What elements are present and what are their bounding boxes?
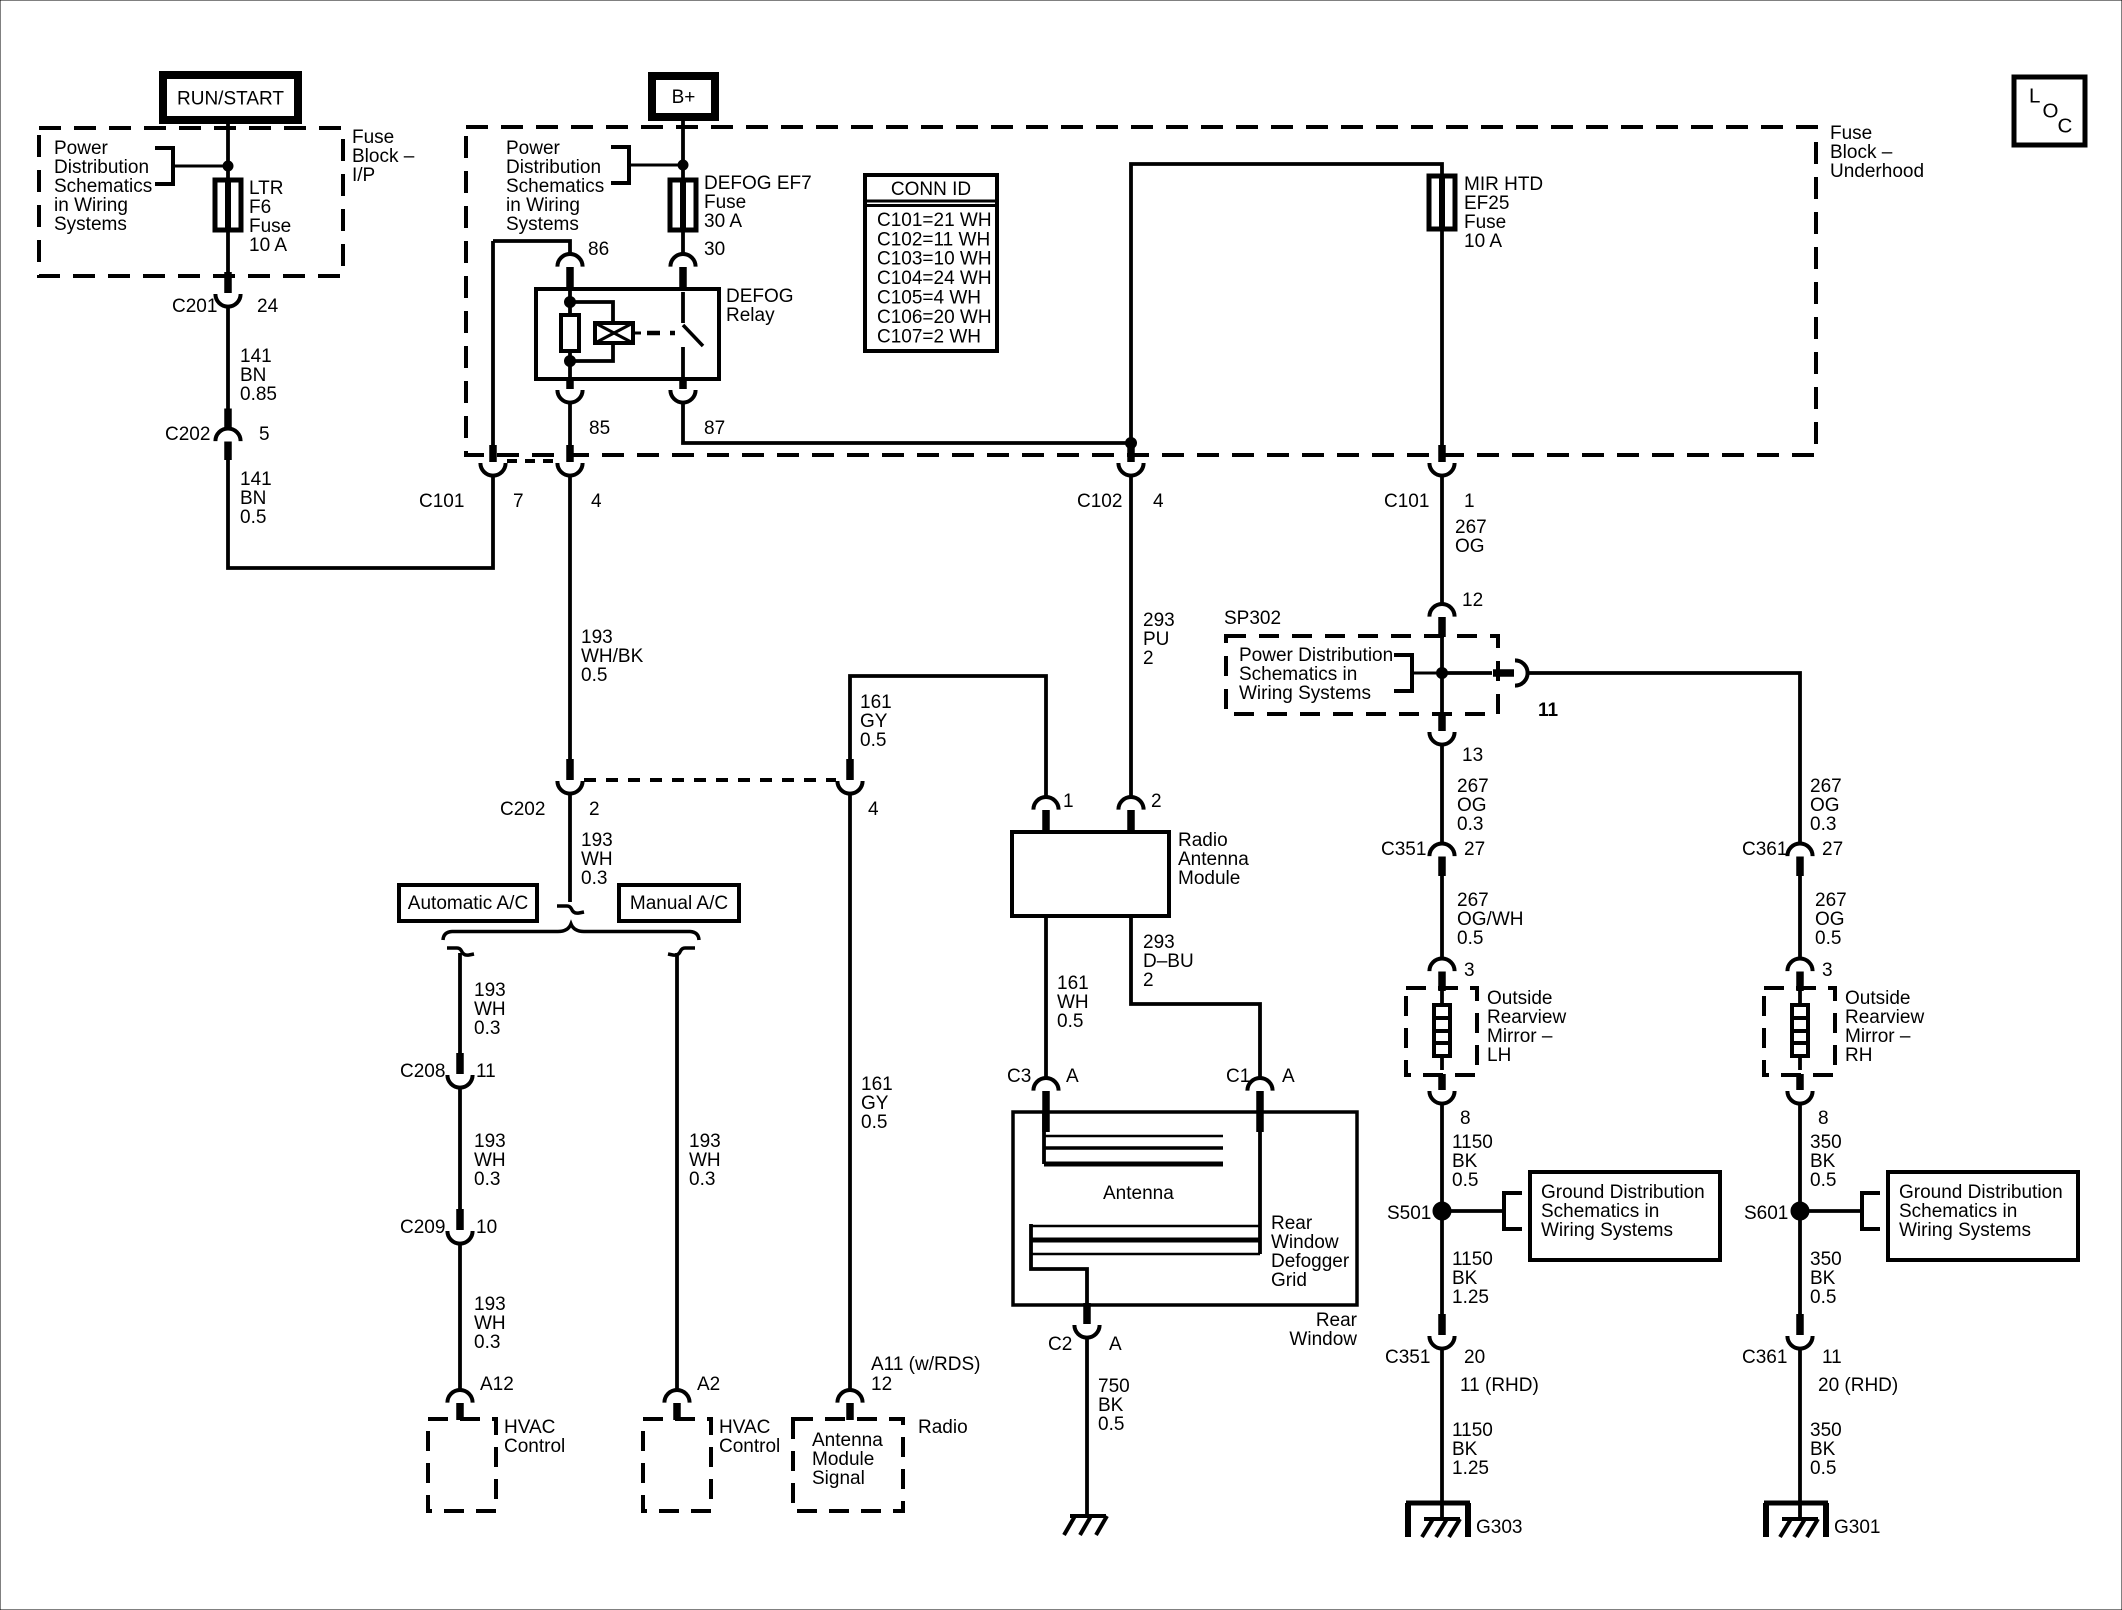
connector C361 terminal 27	[1787, 843, 1812, 876]
svg-text:267: 267	[1457, 776, 1489, 797]
svg-text:193: 193	[581, 627, 613, 648]
svg-text:Module: Module	[1178, 868, 1240, 889]
svg-text:Fuse: Fuse	[1464, 212, 1506, 233]
table CONN ID	[865, 175, 997, 351]
connector terminal 12 (radio)	[837, 1390, 862, 1420]
wire 267 OG/WH 0.5	[1440, 874, 1444, 959]
label 2 (C202)	[589, 799, 600, 820]
splice brace	[443, 924, 699, 940]
wire resistor bottom	[568, 351, 572, 379]
note Ground Distribution Schematics (S501)	[1541, 1182, 1705, 1241]
svg-text:193: 193	[689, 1131, 721, 1152]
label C351 (27)	[1381, 839, 1426, 860]
label A11 (w/RDS) 12	[871, 1354, 980, 1395]
label S501	[1387, 1203, 1431, 1224]
wire into RH heater	[1798, 988, 1802, 1005]
dashed box Outside Rearview Mirror RH	[1764, 988, 1835, 1075]
svg-text:Systems: Systems	[506, 214, 579, 235]
wire 350 BK 0.5 (upper)	[1798, 1102, 1802, 1316]
svg-text:HVAC: HVAC	[719, 1417, 770, 1438]
label 13	[1462, 745, 1483, 766]
svg-text:C101: C101	[1384, 491, 1429, 512]
svg-text:8: 8	[1460, 1108, 1471, 1129]
label 161 GY 0.5 (upper)	[860, 692, 892, 751]
svg-text:Automatic A/C: Automatic A/C	[408, 893, 528, 914]
wire 267 OG 0.5	[1798, 874, 1802, 959]
svg-text:BK: BK	[1810, 1439, 1836, 1460]
svg-text:Window: Window	[1289, 1329, 1357, 1350]
connector terminal 11	[1493, 660, 1528, 685]
svg-text:27: 27	[1464, 839, 1485, 860]
svg-text:85: 85	[589, 418, 610, 439]
svg-text:WH: WH	[1057, 992, 1089, 1013]
junction splice S501	[1433, 1202, 1451, 1220]
svg-text:C351: C351	[1385, 1347, 1430, 1368]
connector C361 terminal 11	[1787, 1314, 1812, 1349]
svg-text:C202: C202	[500, 799, 545, 820]
svg-text:0.5: 0.5	[1452, 1170, 1478, 1191]
wire to relay terminal 86	[493, 241, 570, 255]
label 2 (module)	[1151, 791, 1162, 812]
wire RH heater to terminal 8	[1798, 1056, 1802, 1070]
svg-text:11 (RHD): 11 (RHD)	[1460, 1375, 1539, 1396]
label 86	[588, 239, 609, 260]
svg-text:Relay: Relay	[726, 305, 775, 326]
svg-text:C2: C2	[1048, 1334, 1072, 1355]
label 8 (RH)	[1818, 1108, 1829, 1129]
svg-text:A12: A12	[480, 1374, 514, 1395]
svg-text:30 A: 30 A	[704, 211, 742, 232]
label 193 WH 0.3 (auto mid)	[474, 1131, 506, 1190]
svg-text:11: 11	[1822, 1347, 1842, 1368]
connector C101 terminal 7	[480, 445, 505, 476]
connector C101 terminal 4	[557, 445, 582, 476]
svg-text:0.5: 0.5	[1098, 1414, 1124, 1435]
svg-text:1150: 1150	[1452, 1132, 1493, 1153]
label Rear Window (box)	[1289, 1310, 1357, 1350]
relay switch fixed contact from 30	[681, 292, 685, 323]
svg-text:C106=20 WH: C106=20 WH	[877, 307, 992, 328]
wire 141 BN 0.5 down and right to C101-7	[228, 458, 493, 568]
label 4 (radio branch)	[868, 799, 879, 820]
label C101 (1)	[1384, 491, 1429, 512]
fuse DEFOG EF7 30A	[670, 178, 696, 232]
label 350 BK 0.5 (lower)	[1810, 1420, 1842, 1479]
svg-text:F6: F6	[249, 197, 271, 218]
svg-text:C105=4 WH: C105=4 WH	[877, 288, 981, 309]
svg-text:CONN ID: CONN ID	[891, 179, 971, 200]
svg-text:193: 193	[474, 1294, 506, 1315]
svg-text:BN: BN	[240, 488, 266, 509]
svg-text:4: 4	[1153, 491, 1164, 512]
wire 161 WH 0.5 module to C3	[1044, 916, 1048, 1078]
label G301	[1834, 1517, 1880, 1538]
svg-text:SP302: SP302	[1224, 608, 1281, 629]
connector terminal A12	[447, 1390, 472, 1420]
label 8 (LH)	[1460, 1108, 1471, 1129]
mirror heater element LH	[1434, 1005, 1450, 1056]
svg-text:141: 141	[240, 469, 272, 490]
svg-text:G303: G303	[1476, 1517, 1522, 1538]
label 30	[704, 239, 725, 260]
svg-text:0.3: 0.3	[1457, 814, 1483, 835]
svg-text:MIR HTD: MIR HTD	[1464, 174, 1543, 195]
label 161 WH 0.5	[1057, 973, 1089, 1032]
svg-text:0.3: 0.3	[581, 868, 607, 889]
svg-text:161: 161	[1057, 973, 1089, 994]
svg-text:BK: BK	[1452, 1151, 1478, 1172]
label 750 BK 0.5	[1098, 1376, 1130, 1435]
connector C202 terminal 2	[557, 759, 582, 794]
connector C102 terminal 4	[1118, 445, 1143, 476]
svg-text:WH: WH	[689, 1150, 721, 1171]
svg-text:0.5: 0.5	[1810, 1287, 1836, 1308]
svg-text:in Wiring: in Wiring	[506, 195, 580, 216]
svg-text:0.5: 0.5	[1810, 1458, 1836, 1479]
label S601	[1744, 1203, 1788, 1224]
wire 193 WH/BK 0.5	[568, 474, 572, 760]
svg-text:C201: C201	[172, 296, 217, 317]
svg-text:10 A: 10 A	[249, 235, 287, 256]
legend LOC box	[2014, 77, 2085, 145]
label 350 BK 0.5 (mid)	[1810, 1249, 1842, 1308]
svg-text:C102=11 WH: C102=11 WH	[877, 229, 990, 250]
svg-text:Block –: Block –	[352, 146, 415, 167]
connector C2 terminal A	[1074, 1303, 1099, 1338]
relay coil parallel branch wire	[570, 302, 613, 361]
label Radio	[918, 1417, 968, 1438]
svg-text:DEFOG: DEFOG	[726, 286, 794, 307]
wire RUN/START to fuse LTR	[226, 120, 230, 180]
branch hook Manual	[668, 948, 695, 955]
wire 1150 BK 0.5	[1440, 1102, 1444, 1316]
wire 87 right to C102 node	[683, 401, 1128, 443]
wire into LH heater	[1440, 988, 1444, 1005]
svg-text:2: 2	[1151, 791, 1162, 812]
svg-text:193: 193	[581, 830, 613, 851]
label 85	[589, 418, 610, 439]
label Outside Rearview Mirror - LH	[1487, 988, 1566, 1066]
relay K box DEFOG	[536, 289, 719, 379]
wire LH heater to terminal 8	[1440, 1056, 1444, 1070]
label 1 (C101)	[1464, 491, 1475, 512]
label 267 OG 0.3 (RH)	[1810, 776, 1842, 835]
svg-text:EF25: EF25	[1464, 193, 1509, 214]
svg-text:Wiring Systems: Wiring Systems	[1239, 683, 1371, 704]
label 1150 BK 1.25 (lower)	[1452, 1420, 1493, 1479]
svg-text:13: 13	[1462, 745, 1483, 766]
label C361 (11)	[1742, 1347, 1787, 1368]
svg-text:LH: LH	[1487, 1045, 1511, 1066]
svg-text:267: 267	[1457, 890, 1489, 911]
branch hook Automatic	[447, 948, 474, 955]
svg-text:350: 350	[1810, 1132, 1842, 1153]
wire 750 BK 0.5	[1085, 1336, 1089, 1516]
label 193 WH 0.3 (above brace)	[581, 830, 613, 889]
svg-text:WH: WH	[474, 1150, 506, 1171]
svg-text:C1: C1	[1226, 1066, 1250, 1087]
svg-text:Schematics: Schematics	[506, 176, 604, 197]
label 3 (LH)	[1464, 960, 1475, 981]
svg-text:193: 193	[474, 980, 506, 1001]
label 350 BK 0.5 (upper)	[1810, 1132, 1842, 1191]
label C201	[172, 296, 217, 317]
dashed link C202-2 to radio branch	[584, 778, 836, 782]
svg-text:Block –: Block –	[1830, 142, 1893, 163]
svg-text:OG: OG	[1810, 795, 1840, 816]
svg-text:750: 750	[1098, 1376, 1130, 1397]
label 27 (C351)	[1464, 839, 1485, 860]
label Rear Window Defogger Grid	[1271, 1213, 1350, 1291]
label A (C2)	[1109, 1334, 1122, 1355]
label C351 (20)	[1385, 1347, 1430, 1368]
dashed box Outside Rearview Mirror LH	[1406, 988, 1477, 1075]
svg-text:0.5: 0.5	[860, 730, 886, 751]
label C2	[1048, 1334, 1072, 1355]
relay switch blade	[683, 325, 703, 346]
wire 161 GY from module pin 1	[850, 676, 1046, 797]
wire through SP302	[1440, 635, 1444, 713]
svg-text:0.3: 0.3	[474, 1169, 500, 1190]
label C208	[400, 1061, 445, 1082]
label C102	[1077, 491, 1122, 512]
svg-text:C101=21 WH: C101=21 WH	[877, 210, 992, 231]
label 293 D-BU 2	[1143, 932, 1194, 991]
svg-text:GY: GY	[860, 711, 888, 732]
svg-text:Rearview: Rearview	[1845, 1007, 1924, 1028]
svg-text:A11 (w/RDS): A11 (w/RDS)	[871, 1354, 980, 1375]
svg-text:Ground Distribution: Ground Distribution	[1899, 1182, 2063, 1203]
svg-text:Power: Power	[506, 138, 561, 159]
label 193 WH 0.3 (auto lower)	[474, 1294, 506, 1353]
ground G303	[1406, 1503, 1470, 1537]
svg-text:OG: OG	[1457, 795, 1487, 816]
note Power Distribution Schematics in Wiring Systems (I/P)	[54, 138, 152, 235]
svg-text:RH: RH	[1845, 1045, 1872, 1066]
svg-text:A2: A2	[697, 1374, 720, 1395]
svg-text:Signal: Signal	[812, 1468, 865, 1489]
svg-text:Rear: Rear	[1316, 1310, 1358, 1331]
label 20 / 11 (RHD)	[1460, 1347, 1539, 1396]
wire C102 node to MIR HTD fuse	[1131, 164, 1442, 443]
ground at C2	[1064, 1516, 1107, 1535]
svg-text:193: 193	[474, 1131, 506, 1152]
label A12	[480, 1374, 514, 1395]
label 4 (C102)	[1153, 491, 1164, 512]
label HVAC Control (auto)	[504, 1417, 565, 1457]
svg-text:4: 4	[591, 491, 602, 512]
svg-text:87: 87	[704, 418, 725, 439]
label C202	[165, 424, 210, 445]
svg-text:S601: S601	[1744, 1203, 1788, 1224]
svg-text:1150: 1150	[1452, 1249, 1493, 1270]
label SP302	[1224, 608, 1281, 629]
connector C201 terminal 24	[215, 272, 240, 307]
svg-text:Outside: Outside	[1487, 988, 1552, 1009]
connector C351 terminal 20	[1429, 1314, 1454, 1349]
junction dot at LTR fuse feed	[223, 161, 233, 171]
svg-text:GY: GY	[861, 1093, 889, 1114]
svg-text:C103=10 WH: C103=10 WH	[877, 249, 992, 270]
label DEFOG Relay	[726, 286, 794, 326]
wire S601 to bracket	[1800, 1209, 1862, 1213]
label 11 (C208)	[476, 1061, 496, 1082]
note Ground Distribution Schematics (S601)	[1899, 1182, 2063, 1241]
svg-text:293: 293	[1143, 932, 1175, 953]
junction dot at DEFOG fuse feed	[678, 160, 688, 170]
label Outside Rearview Mirror - RH	[1845, 988, 1924, 1066]
antenna grid element	[1044, 1112, 1223, 1164]
wire Automatic branch lower	[458, 1242, 462, 1390]
svg-text:S501: S501	[1387, 1203, 1431, 1224]
svg-text:2: 2	[1143, 648, 1154, 669]
svg-text:OG/WH: OG/WH	[1457, 909, 1524, 930]
svg-text:BN: BN	[240, 365, 266, 386]
label 267 OG 0.3 (LH)	[1457, 776, 1489, 835]
fuse LTR F6 10A	[215, 178, 241, 232]
relay terminal 30 connector	[670, 254, 695, 290]
svg-text:Control: Control	[719, 1436, 780, 1457]
relay terminal 85 connector	[557, 378, 582, 403]
relay coil box with X	[595, 323, 641, 343]
label 193 WH/BK 0.5	[581, 627, 644, 686]
label C101 (7/4)	[419, 491, 464, 512]
fuse MIR HTD EF25 10A	[1429, 174, 1455, 231]
svg-text:Fuse: Fuse	[1830, 123, 1872, 144]
wire Automatic branch middle	[458, 1086, 462, 1210]
label C209	[400, 1217, 445, 1238]
connector radio branch terminal 4	[837, 759, 862, 794]
svg-text:0.3: 0.3	[474, 1332, 500, 1353]
label Fuse Block - Underhood	[1830, 123, 1924, 182]
svg-text:10: 10	[476, 1217, 497, 1238]
connector C3 terminal A	[1033, 1078, 1058, 1132]
svg-text:Ground Distribution: Ground Distribution	[1541, 1182, 1705, 1203]
label G303	[1476, 1517, 1522, 1538]
label 87	[704, 418, 725, 439]
label A (C1)	[1282, 1066, 1295, 1087]
svg-text:350: 350	[1810, 1420, 1842, 1441]
wire 293 PU 2	[1129, 474, 1133, 797]
svg-text:Fuse: Fuse	[704, 192, 746, 213]
svg-text:20 (RHD): 20 (RHD)	[1818, 1375, 1898, 1396]
junction dot relay top	[565, 297, 576, 308]
svg-text:0.3: 0.3	[689, 1169, 715, 1190]
svg-text:10 A: 10 A	[1464, 231, 1502, 252]
box Rear Window	[1013, 1112, 1357, 1305]
svg-text:Distribution: Distribution	[54, 157, 149, 178]
svg-text:3: 3	[1464, 960, 1475, 981]
label 11 / 20 (RHD)	[1818, 1347, 1898, 1396]
svg-text:161: 161	[860, 692, 892, 713]
tag box Manual A/C	[619, 885, 739, 921]
svg-text:1: 1	[1063, 791, 1074, 812]
svg-text:Mirror –: Mirror –	[1845, 1026, 1911, 1047]
svg-text:141: 141	[240, 346, 272, 367]
svg-text:C: C	[2058, 115, 2073, 138]
wire 161 GY 0.5 to radio	[848, 792, 852, 1390]
label C202 (2)	[500, 799, 545, 820]
connector terminal A2	[664, 1390, 689, 1420]
connector C1 terminal A	[1247, 1078, 1272, 1132]
dashed box SP302 splice	[1226, 636, 1498, 714]
svg-text:Power Distribution: Power Distribution	[1239, 645, 1393, 666]
svg-text:HVAC: HVAC	[504, 1417, 555, 1438]
svg-text:C208: C208	[400, 1061, 445, 1082]
svg-text:Antenna: Antenna	[812, 1430, 883, 1451]
label 27 (C361)	[1822, 839, 1843, 860]
svg-text:0.5: 0.5	[1457, 928, 1483, 949]
wire 86-feed inside fuse block	[491, 241, 495, 448]
wire 350 BK 0.5 to ground	[1798, 1347, 1802, 1519]
label 161 GY 0.5 (lower)	[861, 1074, 893, 1133]
svg-text:A: A	[1282, 1066, 1295, 1087]
wire 11 to right mirror column	[1526, 673, 1800, 844]
svg-text:267: 267	[1815, 890, 1847, 911]
label C361 (27)	[1742, 839, 1787, 860]
note Power Distribution Schematics in Wiring Systems (Underhood)	[506, 138, 604, 235]
wire S501 to bracket	[1442, 1209, 1504, 1213]
label C3	[1007, 1066, 1031, 1087]
svg-text:Window: Window	[1271, 1232, 1339, 1253]
svg-text:5: 5	[259, 424, 270, 445]
label 24	[257, 296, 279, 317]
mirror heater element RH	[1792, 1005, 1808, 1056]
label 193 WH 0.3 (manual)	[689, 1131, 721, 1190]
svg-text:WH/BK: WH/BK	[581, 646, 644, 667]
svg-text:C202: C202	[165, 424, 210, 445]
wire fuse DEFOG to relay terminal 30	[681, 230, 685, 255]
svg-text:0.3: 0.3	[474, 1018, 500, 1039]
svg-text:350: 350	[1810, 1249, 1842, 1270]
dashed box HVAC Control (manual)	[643, 1419, 711, 1511]
svg-text:Mirror –: Mirror –	[1487, 1026, 1553, 1047]
wire Manual branch	[675, 953, 679, 1390]
label 4 (C101)	[591, 491, 602, 512]
svg-text:267: 267	[1455, 517, 1487, 538]
label Radio Antenna Module	[1178, 830, 1249, 889]
svg-text:20: 20	[1464, 1347, 1485, 1368]
wire C101-1 to terminal 12	[1440, 474, 1444, 604]
wire 1150 BK 1.25 to ground	[1440, 1347, 1444, 1519]
dashed link C101 7-4	[507, 459, 557, 463]
svg-text:Fuse: Fuse	[352, 127, 394, 148]
label 11	[1538, 700, 1559, 721]
svg-text:161: 161	[861, 1074, 893, 1095]
svg-text:1.25: 1.25	[1452, 1458, 1489, 1479]
bracket to wire (SP302)	[1394, 655, 1442, 691]
label Fuse Block - I/P	[352, 127, 415, 186]
svg-text:Defogger: Defogger	[1271, 1251, 1350, 1272]
svg-text:Fuse: Fuse	[249, 216, 291, 237]
svg-text:Underhood: Underhood	[1830, 161, 1924, 182]
dashed box HVAC Control (auto)	[428, 1419, 496, 1511]
svg-text:2: 2	[589, 799, 600, 820]
svg-text:C351: C351	[1381, 839, 1426, 860]
label 3 (RH)	[1822, 960, 1833, 981]
box Ground Distribution (S601)	[1888, 1172, 2078, 1260]
connector fuse block terminal 12	[1429, 604, 1454, 637]
bracket to wire (Underhood)	[611, 147, 683, 183]
label A (C3)	[1066, 1066, 1079, 1087]
svg-text:BK: BK	[1098, 1395, 1124, 1416]
label A2	[697, 1374, 720, 1395]
svg-text:C209: C209	[400, 1217, 445, 1238]
svg-text:11: 11	[1538, 700, 1559, 721]
dashed box Fuse Block - Underhood	[466, 127, 1816, 455]
svg-text:BK: BK	[1810, 1268, 1836, 1289]
relay terminal 87 connector	[670, 378, 695, 403]
